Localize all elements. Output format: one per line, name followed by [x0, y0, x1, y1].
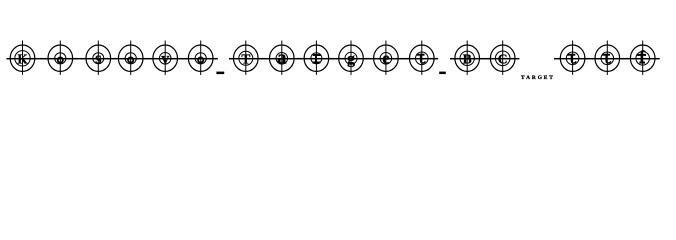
svg-text:K: K	[17, 51, 28, 66]
node glyph10 letter g bullseye	[339, 41, 364, 75]
wire Target rule	[229, 58, 438, 60]
node glyph9 letter r bullseye	[304, 41, 329, 75]
svg-text:T: T	[241, 51, 250, 66]
svg-text:v: v	[161, 50, 169, 67]
node glyph1 letter K bullseye	[10, 41, 35, 75]
node glyph16 letter t bullseye	[595, 41, 620, 75]
node glyph15 letter t bullseye	[560, 41, 585, 75]
node glyph3 letter s bullseye	[86, 41, 111, 75]
svg-text:e: e	[382, 48, 389, 67]
svg-text:TARGET: TARGET	[521, 75, 553, 81]
wire ttf rule	[554, 58, 660, 60]
node glyph13 letter B bullseye	[455, 41, 480, 75]
node glyph8 letter a bullseye	[270, 41, 295, 75]
node glyph4 letter o bullseye	[118, 41, 143, 75]
node glyph2 letter o bullseye	[48, 41, 73, 75]
node glyph14 letter C bullseye	[490, 41, 515, 75]
node glyph7 letter T bullseye	[234, 41, 259, 75]
underscore 2	[439, 72, 446, 75]
node glyph12 letter t bullseye	[410, 41, 435, 75]
svg-text:C: C	[498, 51, 508, 66]
svg-text:a: a	[277, 48, 286, 68]
node glyph6 letter o bullseye	[188, 41, 213, 75]
node glyph11 letter e bullseye	[374, 41, 399, 75]
wire Kosovo rule	[7, 58, 218, 60]
svg-text:B: B	[463, 51, 472, 66]
svg-text:g: g	[347, 49, 355, 67]
node glyph5 letter v bullseye	[153, 41, 178, 75]
svg-text:s: s	[95, 48, 102, 67]
wire BC rule	[450, 58, 519, 60]
node glyph17 letter f bullseye	[630, 41, 655, 75]
underscore 1	[216, 72, 224, 75]
